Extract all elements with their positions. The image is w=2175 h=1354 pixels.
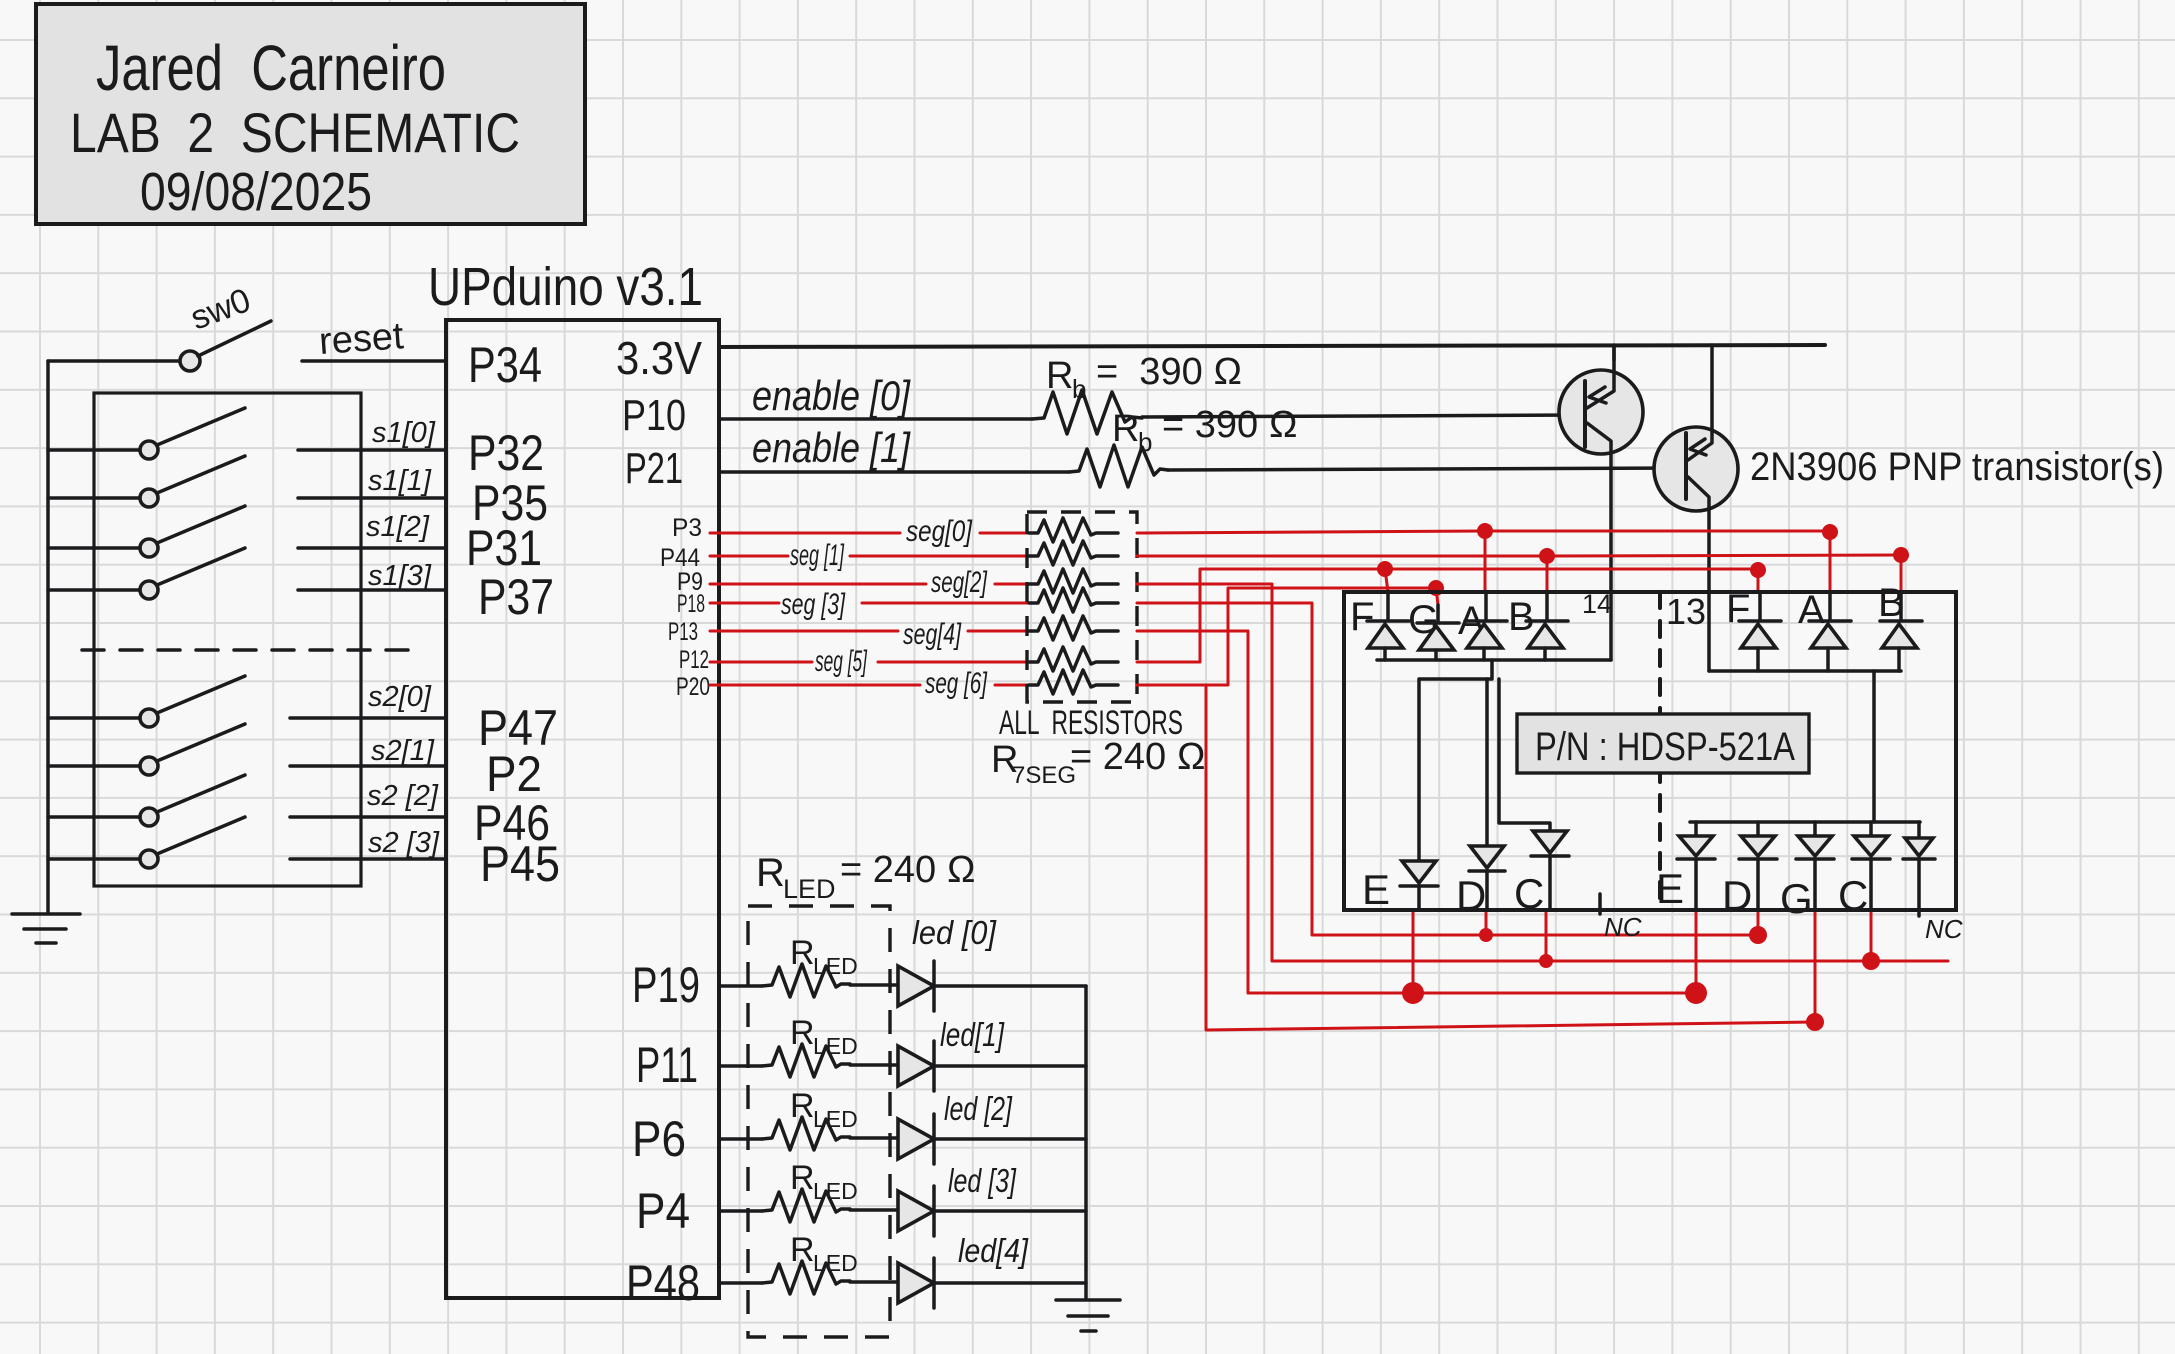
svg-text:R: R <box>1112 408 1139 450</box>
svg-text:seg[2]: seg[2] <box>931 566 987 599</box>
wire s2[3] <box>290 857 446 861</box>
wire enable1 from P21 <box>719 470 1069 474</box>
svg-text:G: G <box>1780 875 1813 922</box>
svg-text:seg[0]: seg[0] <box>906 515 973 548</box>
svg-text:C: C <box>1838 872 1868 919</box>
wire C2 pin stub <box>1870 912 1873 961</box>
digit divider dashed <box>1658 592 1662 910</box>
svg-text:s1[3]: s1[3] <box>368 560 432 592</box>
wire to led3 <box>850 1208 898 1212</box>
wire seg2 right <box>1137 584 1948 961</box>
wire seg4 to resistors <box>968 630 1030 633</box>
wire seg1 to resistors <box>850 555 1030 558</box>
digit2 segment F LED <box>1726 587 1781 671</box>
svg-text:LED: LED <box>813 1250 858 1276</box>
svg-text:13: 13 <box>1666 591 1706 632</box>
svg-text:2N3906 PNP transistor(s): 2N3906 PNP transistor(s) <box>1750 445 2164 489</box>
svg-text:B: B <box>1508 595 1535 639</box>
wire seg0 right <box>1137 531 1830 533</box>
dashed separator <box>82 648 413 652</box>
pin NC digit1 <box>1598 894 1602 914</box>
wire B2 pin stub <box>1900 555 1903 592</box>
wire C1 pin stub <box>1545 912 1548 961</box>
digit2 segment C LED <box>1838 822 1890 919</box>
svg-text:P/N : HDSP-521A: P/N : HDSP-521A <box>1535 725 1795 769</box>
wire s1[2] <box>298 546 446 550</box>
wire D1 pin stub <box>1485 912 1488 935</box>
wire to led1 <box>850 1063 898 1067</box>
switch s2[3] <box>48 817 245 868</box>
switch sw0 <box>180 351 200 371</box>
resistor Rb1 <box>1032 390 1142 434</box>
LED led[2] <box>898 1114 934 1164</box>
wire seg1 left <box>710 555 788 558</box>
resistor Rseg1 <box>1029 541 1118 565</box>
digit2 segment D LED <box>1722 822 1777 919</box>
part number box <box>1517 714 1809 773</box>
wire Q1 emitter to 3.3V <box>1612 345 1616 360</box>
digit2 segment B LED <box>1878 581 1922 671</box>
svg-text:R: R <box>790 1087 815 1125</box>
svg-text:P12: P12 <box>679 646 709 674</box>
digit1 segment B LED <box>1508 592 1568 660</box>
wire s2[2] <box>290 815 446 819</box>
svg-text:P20: P20 <box>676 673 710 701</box>
transistor Q2 2N3906 <box>1654 345 1738 592</box>
resistor pack box dashed <box>1027 512 1137 702</box>
svg-text:E: E <box>1362 866 1390 913</box>
wire seg0 to resistors <box>980 532 1030 535</box>
wire A2 pin stub <box>1829 532 1832 592</box>
svg-text:P31: P31 <box>466 520 542 576</box>
svg-text:R: R <box>790 1014 815 1052</box>
junction seg0 at A2 <box>1822 524 1838 540</box>
svg-text:Jared Carneiro: Jared Carneiro <box>96 32 446 104</box>
wire to led4 <box>850 1280 898 1284</box>
wire led3 to bus <box>934 1209 1086 1213</box>
svg-text:P6: P6 <box>632 1111 686 1167</box>
resistor Rseg6 <box>1029 670 1118 694</box>
switch s2[0] <box>48 676 245 727</box>
svg-text:E: E <box>1656 865 1684 912</box>
junction seg6 at G1 <box>1428 580 1444 596</box>
wire sw0 left <box>48 359 182 363</box>
switch s2[2] <box>48 775 245 826</box>
wire led2 to bus <box>934 1137 1086 1141</box>
digit1 segment C LED <box>1514 831 1569 917</box>
LED led[0] <box>898 961 934 1011</box>
wire seg6 to resistors <box>995 684 1030 687</box>
wire seg0 left <box>710 532 900 535</box>
resistor Rb2 <box>1069 445 1168 487</box>
switch s2[1] <box>48 724 245 775</box>
svg-text:P48: P48 <box>626 1255 700 1311</box>
svg-text:enable [1]: enable [1] <box>752 424 911 471</box>
LED led[3] <box>898 1186 934 1236</box>
wire led0 to bus <box>934 984 1086 988</box>
svg-text:LED: LED <box>813 1106 858 1132</box>
wire G2 pin stub <box>1814 912 1817 1022</box>
switch s1[0] <box>48 408 245 459</box>
svg-text:s1[2]: s1[2] <box>366 511 430 543</box>
svg-text:P10: P10 <box>622 391 686 440</box>
svg-text:s2[0]: s2[0] <box>368 681 432 713</box>
svg-text:P32: P32 <box>468 425 544 481</box>
wire seg5 to resistors <box>878 661 1030 664</box>
wire enable0 to Q1 base <box>1142 415 1585 417</box>
wire digit1 anode to D <box>1485 679 1489 846</box>
wire digit1 anode to E <box>1419 660 1492 861</box>
wire seg3 to resistors <box>862 602 1030 605</box>
wire to led2 <box>850 1136 898 1140</box>
wire seg4 left <box>710 630 898 633</box>
wire s2[0] <box>290 716 446 720</box>
svg-text:LED: LED <box>813 1178 858 1204</box>
resistor Rseg2 <box>1029 569 1118 593</box>
wire Q2 collector to pin13 <box>1707 592 1711 671</box>
wire seg5 left <box>710 661 812 664</box>
svg-text:LED: LED <box>813 1033 858 1059</box>
wire P11 <box>719 1064 762 1068</box>
wire s1[0] <box>298 448 446 452</box>
wire B1 pin stub <box>1546 556 1549 592</box>
wire seg6 branch down <box>1206 685 1815 1030</box>
junction seg4 at E1 <box>1402 982 1424 1004</box>
digit2 segment E LED <box>1656 822 1715 912</box>
svg-text:D: D <box>1722 872 1752 919</box>
svg-text:7SEG: 7SEG <box>1012 762 1076 789</box>
digit2 NC diode <box>1903 822 1935 916</box>
resistor Rseg3 <box>1029 588 1118 612</box>
wire enable1 to Q2 base <box>1168 468 1686 470</box>
switch s1[2] <box>48 506 245 557</box>
resistor Rseg4 <box>1029 616 1118 640</box>
resistor RLED3 <box>762 1189 850 1222</box>
wire seg4 right <box>1137 631 1696 993</box>
svg-text:= 240 Ω: = 240 Ω <box>840 849 976 891</box>
wire seg6 left <box>710 684 920 687</box>
svg-text:C: C <box>1514 870 1544 917</box>
svg-text:seg [1]: seg [1] <box>790 539 844 572</box>
svg-text:NC: NC <box>1925 914 1963 944</box>
svg-text:seg [5]: seg [5] <box>815 645 867 678</box>
wire seg1 right <box>1137 555 1901 556</box>
transistor Q1 2N3906 <box>1559 346 1643 592</box>
svg-text:R: R <box>790 934 815 972</box>
wire seg6 right <box>1137 588 1436 685</box>
svg-text:P45: P45 <box>480 836 560 892</box>
digit2 segment A LED <box>1798 588 1851 671</box>
svg-text:3.3V: 3.3V <box>616 332 702 384</box>
wire seg2 to resistors <box>995 583 1030 586</box>
wire 3.3V rail <box>719 345 1825 347</box>
digit2 segment G LED <box>1780 822 1834 922</box>
svg-text:F: F <box>1350 595 1374 639</box>
svg-text:09/08/2025: 09/08/2025 <box>140 162 372 222</box>
svg-text:= 240 Ω: = 240 Ω <box>1070 736 1206 778</box>
junction seg3 at D2 <box>1749 926 1767 944</box>
svg-text:NC: NC <box>1604 912 1642 942</box>
FPGA board U1 UPduino v3.1 <box>446 320 719 1298</box>
resistor RLED1 <box>762 1044 850 1077</box>
wire F2 pin stub <box>1757 570 1760 592</box>
title block <box>36 4 585 224</box>
wire s2[1] <box>290 764 446 768</box>
svg-text:R: R <box>1046 355 1073 397</box>
svg-text:R: R <box>756 851 785 895</box>
ground right <box>1056 1300 1120 1331</box>
wire s1[3] <box>298 588 446 592</box>
svg-text:LED: LED <box>783 874 836 904</box>
svg-text:LED: LED <box>813 953 858 979</box>
svg-text:LAB 2 SCHEMATIC: LAB 2 SCHEMATIC <box>70 101 520 164</box>
svg-text:seg[4]: seg[4] <box>903 618 961 651</box>
wire digit1 anode to C <box>1499 679 1550 831</box>
wire digit2 lower bus <box>1690 820 1920 824</box>
wire E2 pin stub <box>1695 912 1698 993</box>
wire E1 pin stub <box>1412 912 1415 993</box>
svg-text:led [0]: led [0] <box>912 914 997 951</box>
wire seg5 right <box>1137 569 1758 662</box>
wire D2 pin stub <box>1757 912 1760 935</box>
svg-text:s1[1]: s1[1] <box>368 465 432 497</box>
LED led[1] <box>898 1041 934 1091</box>
wire Q1 collector to pin14 <box>1609 592 1613 660</box>
junction seg6 at G2 <box>1806 1013 1824 1031</box>
wire seg3 left <box>710 602 779 605</box>
switch s1[1] <box>48 456 245 507</box>
svg-text:led[1]: led[1] <box>940 1016 1005 1053</box>
svg-text:UPduino v3.1: UPduino v3.1 <box>428 257 703 317</box>
junction seg2 at C1 <box>1539 954 1553 968</box>
wire enable0 from P10 <box>719 417 1032 421</box>
digit1 segment G LED <box>1408 598 1459 660</box>
svg-text:A: A <box>1798 588 1825 632</box>
svg-text:P19: P19 <box>632 957 700 1013</box>
svg-text:s2[1]: s2[1] <box>371 735 435 767</box>
wire A1 pin stub <box>1484 531 1487 592</box>
junction seg4 at E2 <box>1685 982 1707 1004</box>
wire led1 to bus <box>934 1064 1086 1068</box>
junction seg1 at B1 <box>1539 548 1555 564</box>
svg-text:P2: P2 <box>486 746 542 802</box>
junction seg2 at C2 <box>1862 952 1880 970</box>
wire led cathode bus <box>1084 986 1088 1298</box>
LED led[4] <box>898 1258 934 1308</box>
wire s1[1] <box>298 496 446 500</box>
ground left <box>12 914 80 943</box>
display module box HDSP-521A <box>1344 592 1956 910</box>
svg-text:s2 [2]: s2 [2] <box>367 780 439 812</box>
wire P19 <box>719 984 762 988</box>
resistor RLED2 <box>762 1117 850 1150</box>
digit1 segment A LED <box>1458 592 1507 660</box>
junction seg5 at F2 <box>1750 562 1766 578</box>
svg-text:enable [0]: enable [0] <box>752 372 911 419</box>
digit1 segment E LED <box>1362 861 1438 913</box>
wire to led0 <box>850 983 898 987</box>
svg-text:F: F <box>1726 587 1750 631</box>
svg-text:D: D <box>1456 872 1486 919</box>
svg-text:P37: P37 <box>478 569 554 625</box>
junction seg0 at A1 <box>1477 523 1493 539</box>
junction seg5 at F1 <box>1377 561 1393 577</box>
svg-text:P4: P4 <box>636 1183 690 1239</box>
svg-text:b: b <box>1138 427 1152 457</box>
svg-text:s1[0]: s1[0] <box>372 417 436 449</box>
svg-text:= 390 Ω: = 390 Ω <box>1162 404 1298 446</box>
svg-text:seg [3]: seg [3] <box>781 588 845 621</box>
svg-text:led[4]: led[4] <box>958 1232 1029 1269</box>
wire P4 <box>719 1209 762 1213</box>
svg-text:P13: P13 <box>668 618 698 646</box>
wire F1 pin stub <box>1385 569 1388 592</box>
LED resistor pack dashed box <box>748 906 890 1337</box>
svg-text:led [3]: led [3] <box>948 1162 1017 1199</box>
resistor Rseg5 <box>1029 647 1118 671</box>
digit1 segment F LED <box>1350 592 1409 660</box>
wire seg2 left <box>710 583 926 586</box>
svg-text:14: 14 <box>1582 589 1612 619</box>
wire reset <box>302 359 446 363</box>
svg-text:P3: P3 <box>672 514 702 542</box>
wire P48 <box>719 1281 762 1285</box>
junction seg3 at D1 <box>1479 928 1493 942</box>
svg-text:R: R <box>790 1231 815 1269</box>
wire P6 <box>719 1137 762 1141</box>
wire led4 to bus <box>934 1281 1086 1285</box>
wire digit2 anode bus <box>1709 669 1901 673</box>
junction seg1 at B2 <box>1893 547 1909 563</box>
svg-text:s2 [3]: s2 [3] <box>368 827 440 859</box>
resistor RLED4 <box>762 1261 850 1294</box>
digit1 segment D LED <box>1456 846 1505 919</box>
svg-text:P21: P21 <box>625 444 683 493</box>
svg-text:P18: P18 <box>677 590 705 618</box>
svg-text:reset: reset <box>318 315 406 363</box>
svg-text:P34: P34 <box>468 337 542 393</box>
wire ground bus left <box>46 361 50 912</box>
svg-text:R: R <box>790 1159 815 1197</box>
wire digit2 anode down <box>1872 671 1876 822</box>
svg-text:seg [6]: seg [6] <box>925 667 987 700</box>
wire digit1 anode bus <box>1377 658 1611 662</box>
svg-text:b: b <box>1072 374 1086 404</box>
resistor Rseg0 <box>1029 518 1118 542</box>
wire seg3 right <box>1137 603 1758 935</box>
resistor RLED0 <box>762 964 850 997</box>
switch s1[3] <box>48 548 245 599</box>
svg-text:led [2]: led [2] <box>944 1090 1013 1127</box>
switch bank box <box>94 393 361 886</box>
svg-text:P11: P11 <box>636 1037 698 1093</box>
svg-text:= 390 Ω: = 390 Ω <box>1096 351 1242 393</box>
wire G1 pin stub <box>1436 588 1438 605</box>
